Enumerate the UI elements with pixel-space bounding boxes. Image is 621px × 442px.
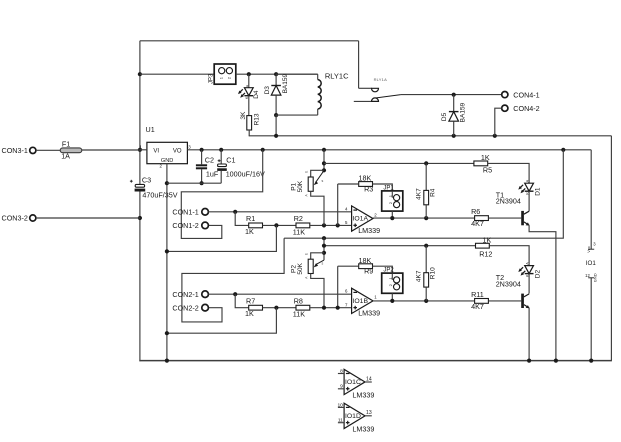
pin 13 of IO1D — [366, 410, 372, 416]
label D1 — [535, 187, 542, 196]
transistor T1 — [521, 211, 529, 226]
label 1K of R12 — [483, 235, 492, 244]
wire VO rail — [187, 149, 591, 151]
svg-text:E: E — [304, 253, 308, 255]
wire JP1 to output — [391, 211, 393, 218]
label S of P1 — [322, 179, 324, 183]
node JP3/D3 — [274, 72, 278, 76]
label C3 — [142, 176, 151, 185]
svg-text:LM339: LM339 — [358, 309, 380, 318]
relay contact common stub — [354, 100, 372, 102]
svg-text:R1: R1 — [246, 214, 255, 223]
connector CON4-2 — [502, 104, 540, 113]
node R8wire/P2 bottom — [322, 306, 326, 310]
node output2/R10 — [424, 299, 428, 303]
jumper JP3 box — [214, 64, 236, 84]
capacitor C2 — [196, 150, 207, 183]
pin 2 JP2 — [388, 283, 393, 286]
svg-text:C1: C1 — [226, 156, 235, 165]
svg-text:JP3: JP3 — [208, 73, 214, 84]
svg-text:18K: 18K — [359, 174, 372, 183]
label 11K of R8 — [293, 310, 305, 319]
pin 1 of U1 — [140, 145, 143, 150]
label JP3 — [208, 73, 214, 84]
svg-text:50K: 50K — [297, 180, 304, 192]
wire F1 to left rail — [82, 149, 140, 151]
node VO/CON1-2 feed — [261, 148, 265, 152]
node rail136/D5 — [452, 134, 456, 138]
pin 1 JP3 — [219, 76, 224, 79]
svg-text:R3: R3 — [364, 184, 373, 193]
node CON4 wire/D5 — [452, 93, 456, 97]
svg-text:18K: 18K — [359, 256, 372, 265]
pin 10 of IO1D — [337, 402, 343, 408]
node left-rail/VI — [138, 148, 142, 152]
svg-text:JP1: JP1 — [383, 186, 394, 192]
label R1 — [246, 214, 255, 223]
svg-text:R11: R11 — [471, 290, 484, 299]
svg-text:R13: R13 — [254, 113, 261, 125]
wire right vertical x611 — [610, 136, 612, 361]
wire VCC right branch — [284, 150, 563, 238]
label JP2 — [383, 268, 394, 274]
node GND/cap line — [165, 181, 169, 185]
svg-text:8: 8 — [340, 368, 343, 374]
pin 12 of IO1 — [585, 273, 590, 278]
label U1 — [146, 125, 155, 134]
label T2 — [496, 273, 504, 282]
node IO1 gnd rail — [589, 359, 593, 363]
label A of D2 — [526, 262, 530, 265]
node rail1/P2 feed — [322, 236, 326, 240]
label K of D2 — [525, 274, 529, 277]
svg-text:A: A — [304, 194, 308, 197]
wire R8 to comparator plus — [310, 307, 352, 309]
label R11 — [471, 290, 484, 299]
wire R2 to comparator plus — [310, 224, 352, 226]
jumper JP1 box — [382, 191, 403, 211]
svg-text:R2: R2 — [294, 214, 303, 223]
wire top rail — [140, 40, 359, 42]
LED D4 — [238, 74, 253, 115]
pin 2 JP1 — [388, 201, 393, 204]
connector CON2-1 — [172, 290, 208, 299]
wire cap gnd line — [167, 182, 221, 184]
relay contact RLY1A fixed pad — [372, 88, 379, 92]
svg-text:12: 12 — [585, 273, 590, 278]
label BA159 of D5 — [460, 102, 467, 122]
label R9 — [364, 267, 373, 276]
pin 11 of IO1D — [338, 418, 343, 424]
label RLY1A — [374, 77, 388, 82]
node GND/link1 — [165, 249, 169, 253]
pin 1 of IO1B — [374, 295, 377, 300]
resistor R2 — [296, 223, 310, 228]
svg-text:K: K — [245, 96, 249, 99]
jumper JP3 pin circles — [219, 68, 233, 74]
wire IO1 GND pin stub — [588, 278, 594, 361]
capacitor C3 plates — [130, 180, 145, 192]
wire arm to CON4-1 — [401, 94, 502, 96]
svg-text:CON2-1: CON2-1 — [172, 290, 198, 299]
svg-text:LM339: LM339 — [352, 425, 374, 434]
node rail2/R10 — [424, 244, 428, 248]
wire bottom ground rail — [139, 360, 612, 362]
svg-text:s: s — [322, 262, 324, 266]
label S of P2 — [322, 262, 324, 266]
svg-text:R9: R9 — [364, 267, 373, 276]
svg-text:D2: D2 — [535, 270, 542, 279]
pin 2 JP3 — [226, 76, 231, 79]
svg-text:50K: 50K — [297, 262, 304, 274]
label R10 — [429, 267, 436, 279]
pin 9 of IO1C — [340, 384, 343, 390]
label D4 — [253, 90, 260, 99]
label 18K of R3 — [359, 174, 372, 183]
wire P2 feed vertical — [323, 238, 325, 260]
label R13 — [254, 113, 261, 125]
wire JP3 left — [140, 73, 214, 75]
pin 13 stub of IO1D — [365, 415, 372, 417]
svg-text:4K7: 4K7 — [416, 270, 423, 282]
svg-text:F1: F1 — [62, 139, 70, 148]
label LM339 of IO1D — [352, 425, 374, 434]
svg-text:11: 11 — [338, 418, 343, 424]
wire IO1A output — [373, 217, 474, 219]
svg-text:1K: 1K — [245, 227, 254, 236]
pin 10 stub of IO1D — [338, 406, 344, 408]
wire rail 163 to R5 — [324, 162, 474, 164]
label T1 — [496, 191, 504, 200]
label R8 — [294, 296, 303, 305]
wire VCC to CON2-2 loop — [182, 238, 284, 322]
label 2N3904 of T1 — [496, 197, 521, 206]
wire R3 to plus input — [337, 184, 339, 225]
svg-text:1K: 1K — [481, 153, 490, 162]
svg-text:JP2: JP2 — [383, 268, 394, 274]
label IO1 — [586, 260, 597, 267]
label E of P2 — [304, 253, 308, 255]
node P1 wiper join — [322, 168, 326, 172]
svg-text:K: K — [525, 192, 529, 195]
svg-text:2N3904: 2N3904 — [496, 279, 521, 288]
node emitter gnd — [554, 359, 558, 363]
svg-text:2: 2 — [226, 76, 231, 79]
label D2 — [535, 270, 542, 279]
regulator U1 box — [147, 142, 188, 163]
wire R5 to D1 — [488, 163, 529, 183]
wire JP2 to output — [391, 293, 393, 301]
svg-text:s: s — [322, 179, 324, 183]
label A of D1 — [526, 179, 530, 182]
pin 2 of U1 — [160, 163, 163, 168]
jumper JP1 pins — [392, 191, 399, 208]
svg-text:R10: R10 — [429, 267, 436, 279]
wire CON3-1 to F1 — [36, 149, 60, 151]
svg-text:LM339: LM339 — [358, 226, 380, 235]
connector CON1-1 — [172, 207, 208, 216]
relay coil RLY1C — [318, 74, 321, 115]
svg-text:1K: 1K — [483, 235, 492, 244]
label R2 — [294, 214, 303, 223]
node output/JP1 — [390, 216, 394, 220]
svg-text:1: 1 — [374, 295, 377, 300]
node rail136/D3-down — [274, 134, 278, 138]
wire CON1-2 feed loop — [181, 150, 262, 239]
svg-text:IO1B: IO1B — [353, 298, 369, 305]
label LM339 of IO1A — [358, 226, 380, 235]
label R5 — [483, 165, 492, 174]
wire CON2-1 to comparator minus — [208, 293, 351, 295]
wire JP3 right — [236, 73, 318, 75]
svg-text:1: 1 — [219, 76, 224, 79]
resistor R1 — [249, 223, 263, 228]
svg-text:1A: 1A — [61, 152, 70, 161]
label P2 — [291, 265, 298, 273]
node rail2/P2 feed — [322, 244, 326, 248]
svg-text:2: 2 — [388, 201, 393, 204]
label Vcc — [586, 246, 591, 253]
label A of P1 — [304, 194, 308, 197]
svg-text:CON1-1: CON1-1 — [172, 207, 198, 216]
svg-text:CON4-1: CON4-1 — [513, 90, 539, 99]
node R2wire/P1 bottom — [322, 223, 326, 227]
svg-text:BA159: BA159 — [282, 73, 289, 93]
pin 3 of IO1 — [593, 242, 596, 247]
resistor R6 — [475, 216, 489, 221]
pin 8 of IO1C — [340, 368, 343, 374]
svg-text:10: 10 — [337, 402, 343, 408]
svg-text:VO: VO — [173, 148, 182, 154]
svg-text:3: 3 — [593, 242, 596, 247]
svg-text:A: A — [304, 276, 308, 279]
label D3 — [264, 86, 271, 95]
jumper JP2 pins — [392, 273, 399, 290]
label C1 — [226, 156, 235, 165]
svg-text:D1: D1 — [535, 187, 542, 196]
pin 2 of IO1A — [374, 212, 377, 217]
label 1uF — [206, 169, 219, 178]
wire CON1-1 to comparator minus — [208, 211, 351, 213]
svg-text:CON3-2: CON3-2 — [2, 214, 28, 223]
pin 3 of U1 — [188, 145, 191, 150]
node P1 rail tee — [322, 161, 326, 165]
wire node to R7 — [235, 294, 248, 308]
svg-text:LM339: LM339 — [352, 391, 374, 400]
svg-text:R12: R12 — [479, 249, 492, 258]
capacitor C1 — [217, 150, 227, 183]
node rail163/R4 — [424, 161, 428, 165]
svg-text:13: 13 — [366, 410, 372, 416]
wire T2 emitter to ground — [528, 308, 530, 361]
node CON2-1/R7 — [233, 292, 237, 296]
resistor R11 — [475, 299, 489, 304]
wire IO1 Vcc pin stub — [588, 150, 594, 249]
node VO/VCC right branch — [561, 148, 565, 152]
wire output2 to R11 — [473, 300, 475, 302]
label 4K7 of R4 — [416, 188, 423, 200]
node C2 gnd — [200, 181, 204, 185]
wire left vertical lower (GND) — [139, 192, 141, 362]
svg-text:CON4-2: CON4-2 — [513, 104, 539, 113]
label F1 — [62, 139, 70, 148]
label R4 — [429, 188, 436, 197]
svg-text:D3: D3 — [264, 86, 271, 95]
resistor R5 — [474, 161, 488, 166]
label R6 — [471, 207, 480, 216]
pin 5 of IO1A — [345, 220, 348, 225]
svg-text:CON1-2: CON1-2 — [172, 221, 198, 230]
diode D5 — [449, 95, 459, 136]
node T2 emitter gnd — [527, 359, 531, 363]
label A of P2 — [304, 276, 308, 279]
wire CON4-2 down — [495, 108, 502, 136]
svg-text:A: A — [526, 262, 530, 265]
node VO/P1 branch — [322, 148, 326, 152]
label 18K of R9 — [359, 256, 372, 265]
svg-text:IO1A: IO1A — [353, 215, 369, 222]
svg-text:3: 3 — [188, 145, 191, 150]
pin 9 stub of IO1C — [338, 388, 344, 390]
pin 1 JP2 — [388, 276, 393, 279]
svg-text:4K7: 4K7 — [471, 302, 484, 311]
svg-text:D5: D5 — [441, 112, 448, 121]
svg-text:IO1D: IO1D — [345, 413, 361, 420]
svg-text:RLY1A: RLY1A — [374, 77, 388, 82]
node CON1-1/R1 — [233, 210, 237, 214]
node GND/link2 — [165, 331, 169, 335]
svg-text:14: 14 — [366, 376, 372, 382]
pin 6 of IO1B — [345, 289, 348, 294]
wire coil top — [276, 73, 318, 75]
trimpot P1 — [308, 170, 324, 225]
wire R7-R8 — [263, 307, 296, 309]
svg-text:2: 2 — [374, 212, 377, 217]
svg-text:1000uF/16V: 1000uF/16V — [226, 169, 265, 178]
wire left vertical upper (VCC in) — [139, 41, 141, 185]
node left-rail/JP3 — [138, 72, 142, 76]
svg-text:BA159: BA159 — [460, 102, 467, 122]
wire T1 emitter to ground — [529, 225, 556, 360]
svg-text:D4: D4 — [253, 90, 260, 99]
pin 11 stub of IO1D — [338, 422, 344, 424]
wire R9 to plus input — [337, 266, 339, 308]
wire D3 to rail136 — [275, 115, 277, 136]
svg-text:7: 7 — [345, 303, 348, 308]
pin 8 stub of IO1C — [338, 373, 344, 375]
svg-text:C3: C3 — [142, 176, 151, 185]
resistor R4 — [424, 163, 429, 218]
label C2 — [205, 156, 214, 165]
wire R12 to D2 — [489, 246, 529, 266]
svg-text:1K: 1K — [245, 309, 254, 318]
svg-text:9: 9 — [340, 384, 343, 390]
svg-text:R4: R4 — [429, 188, 436, 197]
svg-text:VI: VI — [153, 148, 159, 154]
label R7 — [246, 296, 255, 305]
wire rail136 — [249, 135, 612, 137]
wire node to R1 — [235, 212, 248, 226]
node left-rail/CON3-2 — [138, 216, 142, 220]
pin VI of U1 — [153, 148, 159, 154]
svg-text:CON3-1: CON3-1 — [2, 146, 28, 155]
wire R6 to T1 base — [489, 217, 522, 219]
node output2/JP2 — [390, 299, 394, 303]
resistor R12 — [476, 243, 490, 248]
label 1K of R1 — [245, 227, 254, 236]
wire IO1B output — [373, 300, 474, 302]
resistor R13 — [247, 116, 252, 130]
svg-text:470uF/35V: 470uF/35V — [142, 190, 177, 199]
label LM339 of IO1C — [352, 391, 374, 400]
wire U1 GND down — [166, 164, 168, 361]
resistor R10 — [424, 246, 429, 301]
label 1K of R7 — [245, 309, 254, 318]
op-amp IO1C — [344, 369, 365, 394]
wire VI — [140, 149, 147, 151]
svg-text:CON2-2: CON2-2 — [172, 303, 198, 312]
pin 1 JP1 — [388, 194, 393, 197]
node rail136/CON4-2 — [493, 134, 497, 138]
svg-text:C2: C2 — [205, 156, 214, 165]
wire R11 to T2 base — [489, 300, 522, 302]
svg-text:GND: GND — [161, 158, 173, 164]
connector CON2-2 — [172, 303, 208, 312]
jumper JP2 box — [382, 273, 403, 293]
svg-text:R7: R7 — [246, 296, 255, 305]
svg-text:5: 5 — [345, 220, 348, 225]
pin GND of U1 — [161, 158, 173, 164]
pin 7 of IO1B — [345, 303, 348, 308]
svg-text:11K: 11K — [293, 227, 305, 236]
node R7/R8 — [274, 306, 278, 310]
svg-text:R6: R6 — [471, 207, 480, 216]
svg-text:K: K — [525, 274, 529, 277]
label RLY1C — [325, 71, 349, 80]
wire R1-R2 — [263, 224, 296, 226]
connector CON1-2 — [172, 221, 208, 230]
label R3 — [364, 184, 373, 193]
svg-text:6: 6 — [345, 289, 348, 294]
svg-text:U1: U1 — [146, 125, 155, 134]
svg-text:2: 2 — [388, 283, 393, 286]
node output/R4 — [424, 216, 428, 220]
node JP3/D4 — [247, 72, 251, 76]
wire P1 feed — [323, 150, 325, 171]
svg-text:A: A — [526, 179, 530, 182]
connector CON3-2 — [2, 214, 36, 223]
node U1 gnd rail — [165, 359, 169, 363]
svg-text:1uF: 1uF — [206, 169, 219, 178]
label LM339 of IO1B — [358, 309, 380, 318]
label 4K7 of R11 — [471, 302, 484, 311]
LED D2 — [518, 266, 533, 294]
wire R1R2 node to GND — [167, 225, 277, 251]
label 50K of P2 — [297, 262, 304, 274]
svg-text:4K7: 4K7 — [416, 188, 423, 200]
label 1000uF/16V — [226, 169, 265, 178]
label 1K of R5 — [481, 153, 490, 162]
label D5 — [441, 112, 448, 121]
label K of D1 — [525, 192, 529, 195]
svg-text:A: A — [245, 84, 249, 87]
pin 14 stub of IO1C — [365, 381, 372, 383]
op-amp IO1B — [352, 288, 373, 313]
svg-text:IO1C: IO1C — [345, 379, 361, 386]
label P1 — [291, 182, 298, 190]
wire R7R8 node to GND — [167, 308, 277, 334]
resistor R8 — [296, 305, 310, 310]
